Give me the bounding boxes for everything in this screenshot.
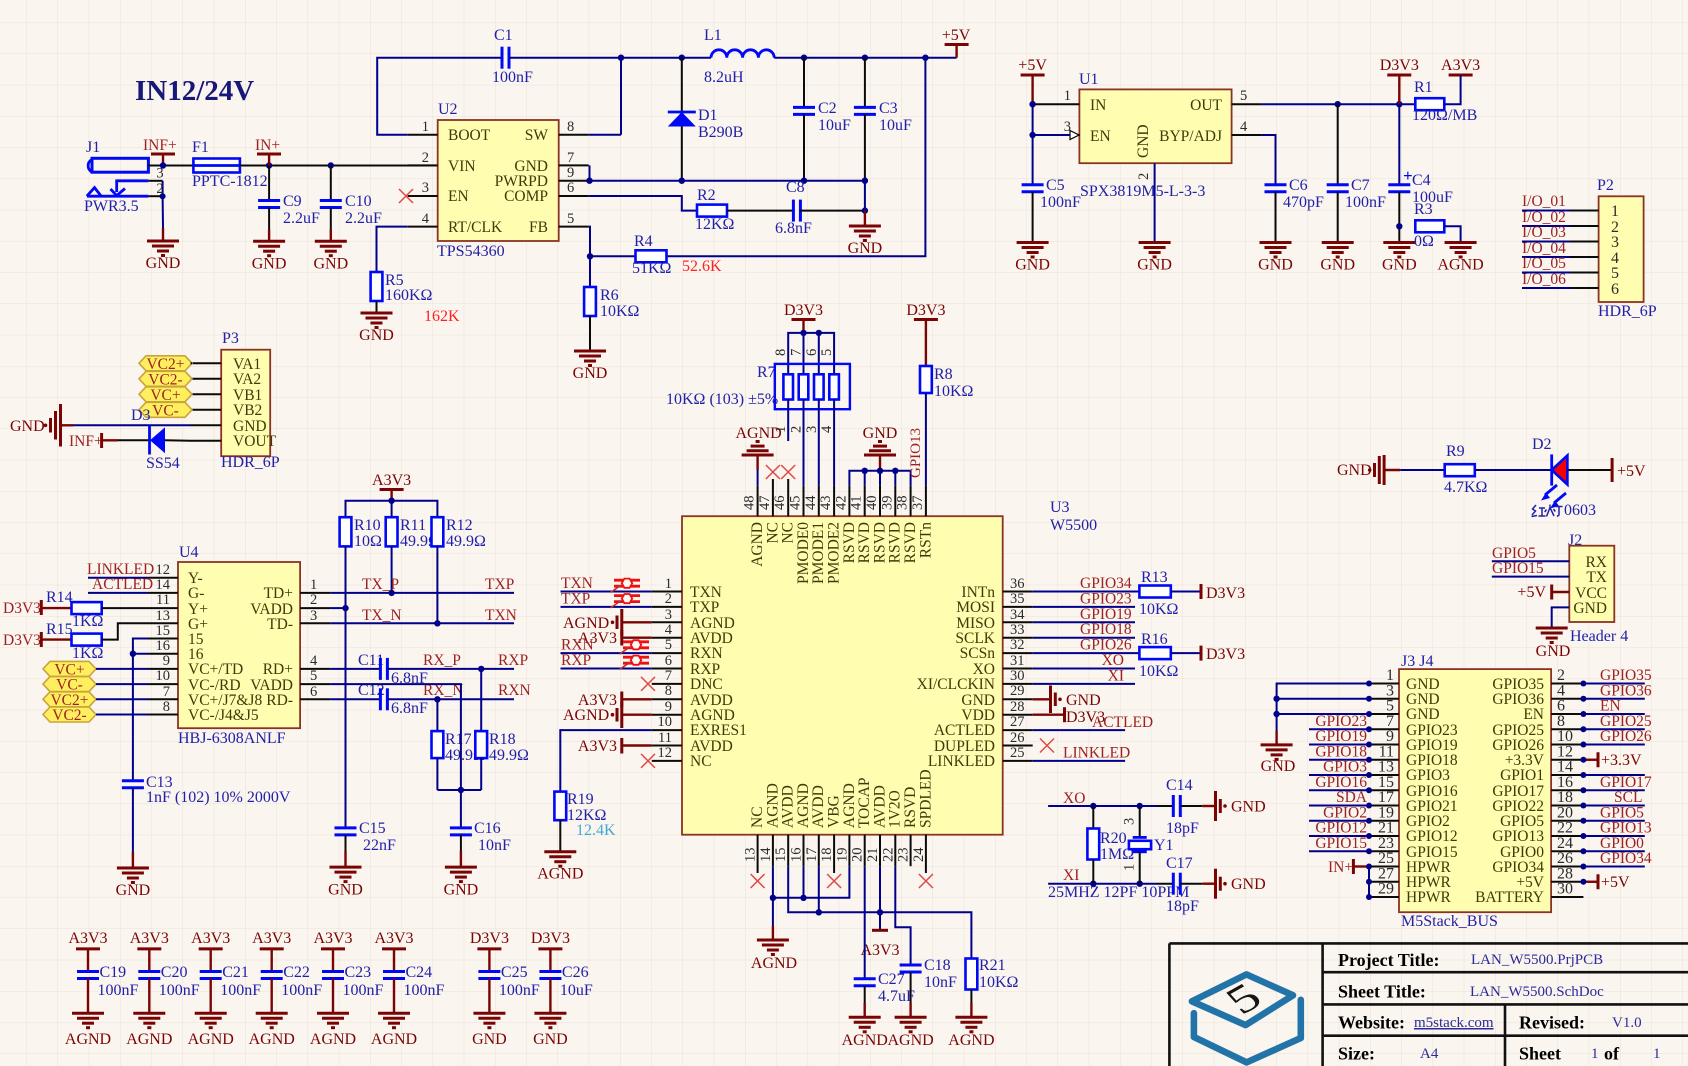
net TXP (pin2) xyxy=(561,606,652,608)
svg-text:+5V: +5V xyxy=(1517,584,1546,601)
pin 2 xyxy=(1154,163,1156,242)
svg-text:9: 9 xyxy=(567,165,574,181)
svg-text:100nF: 100nF xyxy=(159,982,200,999)
svg-text:INF+: INF+ xyxy=(69,433,103,450)
svg-text:22nF: 22nF xyxy=(363,837,396,854)
svg-text:AGND: AGND xyxy=(188,1031,234,1048)
svg-text:F1: F1 xyxy=(192,139,209,156)
ground xyxy=(445,867,477,882)
svg-text:HBJ-6308ANLF: HBJ-6308ANLF xyxy=(178,730,286,747)
power port D3V3 (R15) xyxy=(3,632,72,649)
svg-text:100nF: 100nF xyxy=(492,69,533,86)
net SDA (pin17) xyxy=(1309,805,1369,807)
svg-text:U4: U4 xyxy=(179,544,199,561)
svg-text:20: 20 xyxy=(850,848,866,863)
power port D3V3 xyxy=(1380,57,1419,104)
svg-text:TXP: TXP xyxy=(485,576,514,593)
svg-text:0603: 0603 xyxy=(1564,502,1596,519)
net GPIO13 (pin22) xyxy=(1583,835,1644,837)
power port IN+ xyxy=(255,137,281,166)
svg-text:of: of xyxy=(1604,1044,1620,1064)
capacitor C9 2.2uF xyxy=(258,166,320,242)
svg-text:28: 28 xyxy=(1010,699,1025,715)
svg-text:35: 35 xyxy=(1010,591,1025,607)
svg-text:A3V3: A3V3 xyxy=(191,930,230,947)
ground AGND xyxy=(895,1017,927,1032)
svg-text:GND: GND xyxy=(313,256,348,273)
pin 7 xyxy=(559,164,589,166)
svg-text:GPIO3: GPIO3 xyxy=(1406,767,1450,784)
svg-text:27: 27 xyxy=(1010,714,1025,730)
sideways ground AGND (pin3) xyxy=(563,609,652,636)
svg-text:I/O_03: I/O_03 xyxy=(1522,224,1566,241)
net I/O_02 xyxy=(1522,225,1570,227)
svg-text:6: 6 xyxy=(1557,698,1565,715)
svg-text:J3 J4: J3 J4 xyxy=(1401,653,1433,670)
svg-text:R8: R8 xyxy=(934,366,953,383)
svg-text:C16: C16 xyxy=(474,820,501,837)
capacitor C24 100nF with A3V3 xyxy=(371,930,445,1048)
svg-text:5: 5 xyxy=(1386,698,1394,715)
wire pin14 xyxy=(1583,774,1644,776)
svg-text:2: 2 xyxy=(1136,173,1152,180)
svg-text:1: 1 xyxy=(1064,88,1071,104)
net I/O_03 xyxy=(1522,241,1570,243)
wire VADD pin2 to C15 xyxy=(330,607,345,609)
svg-text:AGND: AGND xyxy=(948,1032,994,1049)
wire TX_N / net TXN xyxy=(330,622,514,624)
ground xyxy=(330,867,362,882)
svg-text:Project Title:: Project Title: xyxy=(1338,950,1439,970)
capacitor C3 10uF xyxy=(854,58,912,181)
capacitor C14 18pF xyxy=(1157,777,1216,837)
svg-text:C27: C27 xyxy=(878,971,905,988)
svg-text:J1: J1 xyxy=(86,139,100,156)
svg-text:6: 6 xyxy=(310,684,317,700)
svg-text:12.4K: 12.4K xyxy=(576,822,616,839)
svg-text:C22: C22 xyxy=(283,964,310,981)
power port IN+ / HPWR bus pins 25,27,29 xyxy=(1328,859,1372,900)
svg-text:G-: G- xyxy=(188,585,204,602)
svg-text:AGND: AGND xyxy=(751,955,797,972)
pin 9 xyxy=(559,180,589,182)
svg-text:1nF (102) 10% 2000V: 1nF (102) 10% 2000V xyxy=(146,789,291,806)
resistor R10 10Ohm xyxy=(340,517,382,611)
svg-text:D3V3: D3V3 xyxy=(1206,646,1245,663)
svg-text:m5stack.com: m5stack.com xyxy=(1414,1015,1494,1031)
net GPIO17 (pin16) xyxy=(1583,789,1644,791)
svg-text:RXP: RXP xyxy=(498,652,528,669)
svg-text:GND: GND xyxy=(1536,643,1571,660)
svg-text:3: 3 xyxy=(310,608,317,624)
svg-text:C24: C24 xyxy=(406,964,433,981)
top pin stubs 48-37 xyxy=(758,479,926,516)
ground xyxy=(1017,243,1049,258)
svg-text:D3V3: D3V3 xyxy=(3,632,41,649)
svg-text:10: 10 xyxy=(658,714,673,730)
svg-text:I/O_06: I/O_06 xyxy=(1522,271,1566,288)
svg-text:GPIO15: GPIO15 xyxy=(1492,560,1544,577)
svg-text:22: 22 xyxy=(880,848,896,863)
svg-text:R21: R21 xyxy=(979,957,1006,974)
node SW junction xyxy=(618,55,624,61)
svg-text:12: 12 xyxy=(156,562,171,578)
svg-text:10nF: 10nF xyxy=(924,974,957,991)
resistor R16 10KOhm xyxy=(1139,631,1201,680)
capacitor C13 1nF xyxy=(122,774,291,868)
harness flag VC2+ xyxy=(139,356,192,373)
power port A3V3 (termination) xyxy=(372,472,411,501)
power port D3V3 (R7) xyxy=(784,302,823,333)
right pin stubs 36-25 xyxy=(1003,592,1033,761)
svg-text:4: 4 xyxy=(310,653,318,669)
svg-text:C19: C19 xyxy=(100,964,127,981)
resistor R3 0Ohm xyxy=(1414,201,1461,250)
svg-text:VC+/TD: VC+/TD xyxy=(188,661,243,678)
svg-text:GND: GND xyxy=(1382,257,1417,274)
svg-text:SS54: SS54 xyxy=(146,455,180,472)
svg-text:VB2: VB2 xyxy=(233,402,262,419)
svg-text:COMP: COMP xyxy=(504,188,548,205)
net I/O_04 xyxy=(1522,256,1570,258)
svg-text:8.2uH: 8.2uH xyxy=(704,69,744,86)
svg-text:10KΩ: 10KΩ xyxy=(1139,663,1179,680)
svg-text:36: 36 xyxy=(1010,576,1025,592)
svg-text:C21: C21 xyxy=(222,964,249,981)
svg-text:A3V3: A3V3 xyxy=(68,930,107,947)
svg-text:FB: FB xyxy=(529,219,548,236)
svg-text:C18: C18 xyxy=(924,957,951,974)
svg-text:C14: C14 xyxy=(1166,777,1193,794)
power port +5V xyxy=(942,27,971,58)
svg-text:9: 9 xyxy=(1386,728,1394,745)
label red-light 0603 xyxy=(1532,505,1563,517)
svg-text:2: 2 xyxy=(422,150,429,166)
svg-text:GND: GND xyxy=(116,882,151,899)
svg-text:13: 13 xyxy=(743,848,759,863)
pin 1 xyxy=(1033,103,1080,105)
svg-text:C15: C15 xyxy=(359,820,386,837)
wire AVDD bus (pins 15,17,21) xyxy=(788,866,971,958)
ground xyxy=(117,868,149,883)
svg-text:HDR_6P: HDR_6P xyxy=(1598,303,1657,320)
svg-text:+5V: +5V xyxy=(1601,874,1630,891)
svg-text:1: 1 xyxy=(422,119,429,135)
pin 4 xyxy=(1232,134,1262,136)
pin 3 xyxy=(1033,134,1080,136)
resistor R15 1KOhm xyxy=(46,621,148,662)
svg-text:AGND: AGND xyxy=(126,1031,172,1048)
svg-text:EN: EN xyxy=(1523,706,1544,723)
wire SW rail to L1 xyxy=(621,57,711,59)
svg-text:TXP: TXP xyxy=(561,590,590,607)
capacitor C23 100nF with A3V3 xyxy=(310,930,384,1048)
svg-text:BOOT: BOOT xyxy=(448,127,491,144)
svg-text:5: 5 xyxy=(310,668,317,684)
svg-text:10KΩ: 10KΩ xyxy=(979,974,1019,991)
wire A3V3 rail xyxy=(346,501,438,518)
power port D3V3 xyxy=(1201,646,1245,663)
svg-text:Y1: Y1 xyxy=(1154,837,1174,854)
ground GND above pins 41-38 xyxy=(863,425,898,471)
net GPIO0 (pin24) xyxy=(1583,850,1644,852)
harness flag VC+ xyxy=(43,661,148,678)
wire TX_P / net TXP xyxy=(330,592,514,594)
svg-text:18pF: 18pF xyxy=(1166,820,1199,837)
capacitor C8 6.8nF xyxy=(775,179,812,237)
capacitor C22 100nF with A3V3 xyxy=(249,930,323,1048)
svg-text:100nF: 100nF xyxy=(499,982,540,999)
net GPIO36 (pin4) xyxy=(1583,698,1644,700)
bottom pin stubs 13-24 xyxy=(758,835,926,873)
svg-text:LINKLED: LINKLED xyxy=(928,753,995,770)
power port +5V (U1) xyxy=(1018,57,1047,104)
svg-text:100nF: 100nF xyxy=(281,982,322,999)
net SCL (pin18) xyxy=(1583,805,1644,807)
sideways ground GND (left) xyxy=(10,404,73,447)
svg-text:R3: R3 xyxy=(1414,201,1433,218)
svg-text:SPX3819M5-L-3-3: SPX3819M5-L-3-3 xyxy=(1080,183,1205,200)
svg-text:100nF: 100nF xyxy=(1345,194,1386,211)
svg-text:24: 24 xyxy=(911,847,927,862)
wire OUT rail xyxy=(1262,103,1416,105)
svg-text:R1: R1 xyxy=(1414,79,1433,96)
svg-text:120Ω/MB: 120Ω/MB xyxy=(1412,107,1477,124)
svg-text:5: 5 xyxy=(1611,265,1619,282)
svg-text:R9: R9 xyxy=(1446,443,1465,460)
ground xyxy=(1383,243,1415,258)
left pin stubs odd xyxy=(1369,684,1399,898)
right pin stubs xyxy=(300,592,330,594)
net GPIO26 (pin10) xyxy=(1583,744,1644,746)
resistor R17 49.9Ohm xyxy=(432,699,486,790)
svg-text:1: 1 xyxy=(1122,864,1138,871)
svg-text:VA2: VA2 xyxy=(233,371,261,388)
resistor R20 1MOhm xyxy=(1087,806,1134,884)
svg-text:AGND: AGND xyxy=(887,1032,933,1049)
svg-text:11: 11 xyxy=(156,592,170,608)
resistor R13 10KOhm xyxy=(1139,569,1201,618)
differential pair marker xyxy=(620,656,650,670)
svg-text:LAN_W5500.SchDoc: LAN_W5500.SchDoc xyxy=(1470,984,1604,1000)
svg-text:R15: R15 xyxy=(46,621,73,638)
title block frame xyxy=(1169,943,1688,1066)
svg-text:D2: D2 xyxy=(1532,436,1552,453)
capacitor C19 100nF with A3V3 xyxy=(65,930,139,1048)
ground U1 pin2 xyxy=(1139,243,1171,258)
svg-text:C5: C5 xyxy=(1046,177,1065,194)
net GPIO15 xyxy=(1492,576,1570,578)
resistor R21 10KOhm xyxy=(966,957,1019,1017)
svg-text:D3V3: D3V3 xyxy=(784,302,823,319)
svg-text:12: 12 xyxy=(658,745,673,761)
capacitor C18 10nF (pin22 1V2O) xyxy=(895,866,957,1017)
power port +5V (pin28) xyxy=(1580,874,1630,891)
svg-text:162K: 162K xyxy=(424,308,460,325)
svg-text:16: 16 xyxy=(156,638,171,654)
wire COMP to R2 xyxy=(589,196,697,211)
svg-text:10: 10 xyxy=(156,668,171,684)
svg-text:RXN: RXN xyxy=(498,682,531,699)
svg-text:GND: GND xyxy=(1406,706,1440,723)
diode D1 B290B xyxy=(668,58,744,181)
svg-text:C20: C20 xyxy=(161,964,188,981)
svg-text:C25: C25 xyxy=(501,964,528,981)
resistor R4 51KOhm xyxy=(632,233,722,277)
capacitor C4 100uF polarized xyxy=(1388,104,1453,242)
svg-text:100nF: 100nF xyxy=(98,982,139,999)
svg-text:RX_P: RX_P xyxy=(423,652,461,669)
svg-text:GND: GND xyxy=(252,256,287,273)
capacitor C26 10uF with D3V3 xyxy=(531,930,593,1048)
net XO wire xyxy=(1048,805,1157,807)
svg-text:17: 17 xyxy=(1378,789,1394,806)
svg-text:GND: GND xyxy=(359,327,394,344)
svg-text:SPDLED: SPDLED xyxy=(917,769,934,828)
svg-text:10uF: 10uF xyxy=(560,982,593,999)
net GPIO26 / R16 (pin32) xyxy=(1033,652,1140,654)
svg-text:C2: C2 xyxy=(818,100,837,117)
svg-text:2: 2 xyxy=(1557,667,1565,684)
svg-text:RT/CLK: RT/CLK xyxy=(448,219,503,236)
svg-text:14: 14 xyxy=(1557,759,1573,776)
svg-text:1: 1 xyxy=(665,576,672,592)
svg-text:3: 3 xyxy=(1611,234,1619,251)
svg-text:R17: R17 xyxy=(445,731,472,748)
crystal Y1 25MHz xyxy=(1122,806,1174,884)
svg-text:AGND: AGND xyxy=(563,707,609,724)
svg-text:GND: GND xyxy=(472,1031,507,1048)
svg-text:11: 11 xyxy=(658,730,672,746)
wire C1 to SW node xyxy=(509,58,621,135)
svg-text:9: 9 xyxy=(163,653,170,669)
svg-text:M5Stack_BUS: M5Stack_BUS xyxy=(1401,913,1498,930)
svg-text:19: 19 xyxy=(834,848,850,863)
svg-text:A3V3: A3V3 xyxy=(1441,57,1480,74)
svg-text:LAN_W5500.PrjPCB: LAN_W5500.PrjPCB xyxy=(1471,952,1603,968)
ground xyxy=(1322,243,1354,258)
svg-text:TXN: TXN xyxy=(485,607,517,624)
svg-text:XI: XI xyxy=(1063,867,1079,884)
svg-text:D3V3: D3V3 xyxy=(906,302,945,319)
svg-text:GND: GND xyxy=(1137,257,1172,274)
regulator U1 SPX3819M5-L-3-3 xyxy=(1029,71,1261,243)
ground xyxy=(147,228,179,256)
svg-text:AGND: AGND xyxy=(371,1031,417,1048)
resistor R9 4.7KOhm xyxy=(1400,443,1552,496)
svg-text:VOUT: VOUT xyxy=(233,433,277,450)
svg-text:B290B: B290B xyxy=(698,124,743,141)
net I/O_01 xyxy=(1522,210,1570,212)
resistor R8 10KOhm xyxy=(908,366,974,486)
svg-text:P2: P2 xyxy=(1597,177,1614,194)
net GPIO23 (pin7) xyxy=(1309,728,1369,730)
svg-text:VC2-: VC2- xyxy=(148,372,182,389)
wire J2 GND xyxy=(1552,607,1570,628)
svg-text:33: 33 xyxy=(1010,622,1025,638)
capacitor C1 100nF xyxy=(492,27,533,86)
connector J1 PWR3.5 xyxy=(84,139,166,215)
svg-text:ACTLED: ACTLED xyxy=(92,576,153,593)
svg-text:BATTERY: BATTERY xyxy=(1475,889,1544,906)
svg-text:6: 6 xyxy=(804,349,820,356)
net RXP (pin6) xyxy=(561,668,652,670)
svg-text:GPIO13: GPIO13 xyxy=(908,428,924,478)
svg-text:TX_P: TX_P xyxy=(362,576,399,593)
svg-text:A3V3: A3V3 xyxy=(374,930,413,947)
no-ERC pin12 NC xyxy=(641,754,655,768)
svg-text:EN: EN xyxy=(448,188,469,205)
harness flag VC2+ xyxy=(43,692,148,709)
ground AGND xyxy=(849,1017,881,1032)
svg-text:IN+: IN+ xyxy=(255,137,280,154)
svg-text:3: 3 xyxy=(804,426,820,433)
no-ERC pin7 DNC xyxy=(641,677,655,691)
svg-text:AGND: AGND xyxy=(310,1031,356,1048)
capacitor C5 100nF xyxy=(1022,104,1081,242)
power port A3V3 xyxy=(1441,57,1480,104)
pin 4 xyxy=(408,226,438,228)
svg-text:12KΩ: 12KΩ xyxy=(695,216,735,233)
svg-text:W5500: W5500 xyxy=(1050,517,1097,534)
svg-text:C9: C9 xyxy=(283,193,302,210)
svg-text:GND: GND xyxy=(10,418,45,435)
pin 8 xyxy=(559,134,589,136)
svg-text:EN: EN xyxy=(1090,128,1111,145)
capacitor C6 470pF xyxy=(1265,177,1325,243)
no-ERC pin47 pin46 xyxy=(766,465,780,479)
harness flag VC2- xyxy=(139,371,192,388)
svg-text:10KΩ (103) ±5%: 10KΩ (103) ±5% xyxy=(666,391,778,408)
power port +5V (D2) xyxy=(1612,458,1646,482)
wire AGND bus (pins 14,16,19) xyxy=(773,866,850,898)
power port A3V3 (pin21, down) xyxy=(860,866,899,959)
svg-text:22: 22 xyxy=(1557,820,1573,837)
LED D2 red 0603 xyxy=(1532,436,1613,519)
svg-text:I/O_05: I/O_05 xyxy=(1522,255,1566,272)
svg-text:GPIO13: GPIO13 xyxy=(1492,828,1544,845)
svg-text:Website:: Website: xyxy=(1338,1013,1405,1033)
svg-text:R20: R20 xyxy=(1100,830,1127,847)
svg-text:5: 5 xyxy=(567,211,574,227)
net XO (pin31) xyxy=(1033,668,1135,670)
pin 5 xyxy=(559,226,589,228)
svg-text:TX: TX xyxy=(1586,569,1607,586)
svg-text:C4: C4 xyxy=(1412,172,1431,189)
ground xyxy=(574,351,606,366)
svg-text:C3: C3 xyxy=(879,100,898,117)
svg-text:I/O_01: I/O_01 xyxy=(1522,193,1566,210)
svg-text:AGND: AGND xyxy=(1437,257,1483,274)
svg-text:2.2uF: 2.2uF xyxy=(345,210,382,227)
svg-text:4: 4 xyxy=(422,211,430,227)
svg-text:R6: R6 xyxy=(600,287,619,304)
svg-text:10KΩ: 10KΩ xyxy=(1139,601,1179,618)
right pin stubs even xyxy=(1551,684,1583,898)
svg-text:8: 8 xyxy=(567,119,574,135)
net GPIO5 xyxy=(1492,560,1570,562)
net GPIO3 (pin13) xyxy=(1309,774,1369,776)
svg-text:ACTLED: ACTLED xyxy=(1092,714,1153,731)
svg-text:GPIO35: GPIO35 xyxy=(1600,667,1652,684)
svg-text:14: 14 xyxy=(156,577,171,593)
left pin stubs xyxy=(148,577,178,579)
svg-text:SW: SW xyxy=(525,127,549,144)
svg-text:47: 47 xyxy=(757,496,773,511)
svg-text:48: 48 xyxy=(742,496,758,511)
wire pin15/16 vertical to C13 xyxy=(133,639,148,781)
svg-text:VC2+: VC2+ xyxy=(146,356,184,373)
